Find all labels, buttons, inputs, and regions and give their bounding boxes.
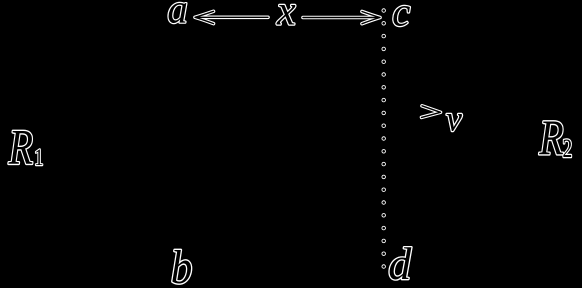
svg-text:2: 2 xyxy=(563,134,573,162)
svg-text:v: v xyxy=(446,99,462,139)
svg-text:b: b xyxy=(171,240,193,288)
svg-text:x: x xyxy=(276,0,296,34)
resistor R1 xyxy=(8,119,33,174)
resistor R2 xyxy=(538,110,563,165)
svg-text:1: 1 xyxy=(34,144,43,171)
velocity arrowhead (rod moves right) xyxy=(422,106,441,118)
svg-text:d: d xyxy=(388,238,412,288)
dotted rod c-d xyxy=(382,8,386,268)
R2 subscript 2 xyxy=(563,134,573,162)
svg-text:c: c xyxy=(392,0,410,34)
left arrow of x dimension (arrowhead points toward a) xyxy=(195,11,268,23)
svg-text:R: R xyxy=(538,110,563,165)
svg-text:R: R xyxy=(8,119,33,174)
right arrow of x dimension (arrowhead points toward c) xyxy=(303,12,380,24)
node b xyxy=(171,240,193,288)
svg-text:a: a xyxy=(167,0,188,32)
R1 subscript 1 xyxy=(34,144,43,171)
